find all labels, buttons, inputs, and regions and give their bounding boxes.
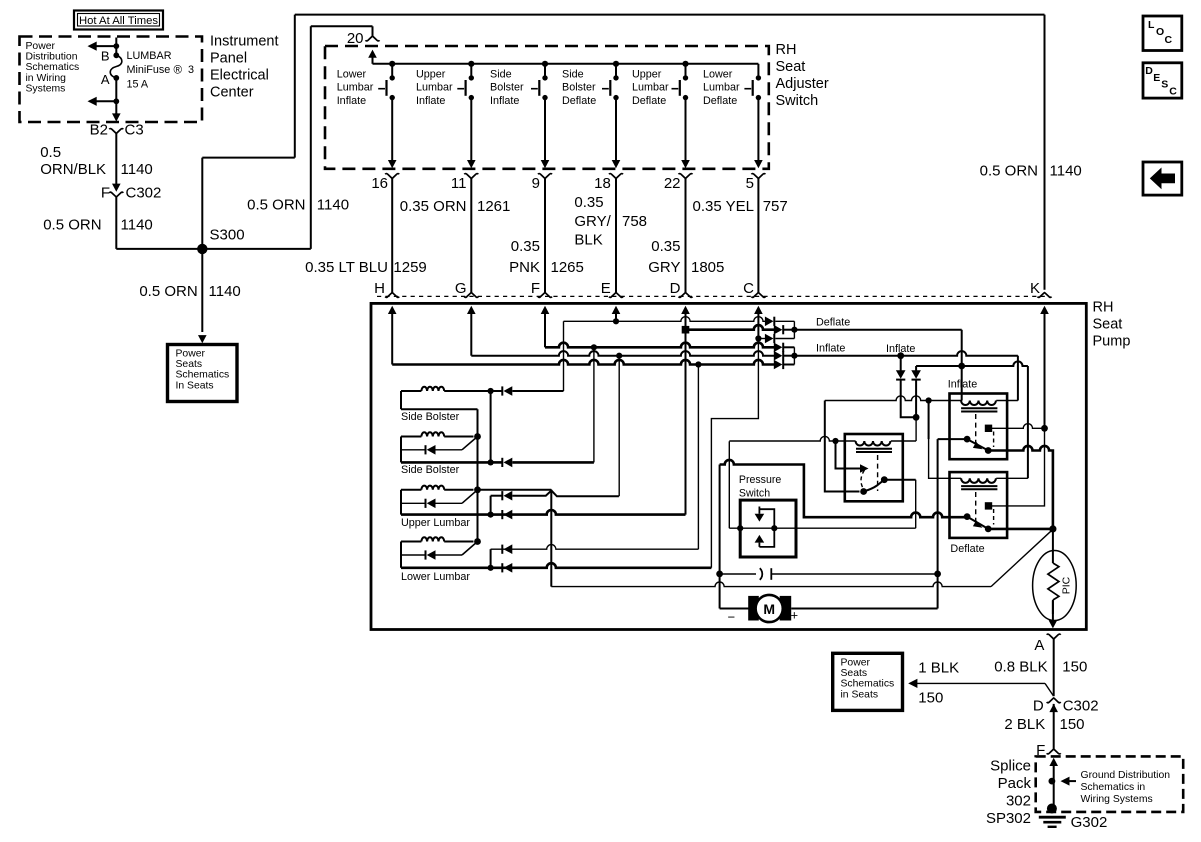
svg-text:Power: Power: [841, 658, 871, 669]
svg-text:F: F: [101, 185, 110, 202]
wire S300 right-branch to switch: [202, 248, 310, 250]
svg-text:Side: Side: [490, 69, 512, 81]
svg-text:0.5 ORN: 0.5 ORN: [139, 283, 197, 300]
wire pin G riser: [470, 313, 472, 356]
svg-text:Upper Lumbar: Upper Lumbar: [401, 517, 470, 529]
connector pin 18: [609, 174, 623, 179]
relay Inflate contact upper: [985, 425, 992, 432]
svg-text:Bolster: Bolster: [490, 82, 524, 94]
svg-text:C: C: [1169, 86, 1177, 98]
node G branch: [616, 353, 622, 359]
svg-text:Lumbar: Lumbar: [632, 82, 669, 94]
svg-text:C3: C3: [125, 122, 144, 139]
svg-text:1140: 1140: [1050, 163, 1082, 180]
bracket Lower Lumbar: [490, 549, 492, 568]
connector pin A female: [1047, 634, 1061, 639]
svg-text:1140: 1140: [209, 283, 241, 300]
wire terminal 16: [391, 178, 393, 292]
svg-text:0.35: 0.35: [651, 238, 680, 255]
wire deflate output: [794, 329, 961, 331]
svg-text:D: D: [670, 280, 681, 297]
relay Deflate core: [961, 485, 997, 487]
button LOC: [1143, 16, 1182, 51]
wire row F: [545, 343, 774, 348]
wire relay center contact out: [884, 479, 915, 481]
svg-text:MiniFuse: MiniFuse: [127, 64, 171, 76]
svg-text:GRY/: GRY/: [574, 213, 611, 230]
svg-text:1140: 1140: [121, 161, 153, 178]
wire pressure switch common: [729, 527, 915, 529]
svg-text:Upper: Upper: [416, 69, 446, 81]
svg-text:Splice: Splice: [990, 758, 1031, 775]
svg-text:Pump: Pump: [1093, 334, 1131, 350]
svg-text:Inflate: Inflate: [490, 95, 519, 107]
connector pin 22: [679, 174, 693, 179]
connector pin 16: [385, 174, 399, 179]
switch Side Bolster Inflate: [542, 61, 548, 67]
connector C302 pin D: [1047, 698, 1061, 703]
svg-text:0.35: 0.35: [511, 238, 540, 255]
wire SB1 left loop: [400, 391, 402, 409]
relay Deflate arm: [967, 517, 988, 529]
wire deflate NO contact to PIC node: [988, 528, 1053, 531]
svg-text:RH: RH: [776, 42, 797, 58]
diode Lower Lumbar: [401, 554, 426, 556]
node deflate link: [958, 363, 965, 370]
wire branch to power seats: [917, 682, 1045, 684]
wire center drop to motor rail: [550, 490, 552, 587]
svg-text:0.5: 0.5: [40, 144, 61, 161]
svg-text:Systems: Systems: [26, 83, 66, 94]
arrow into pump pin H: [388, 306, 397, 314]
wire terminal 9: [544, 178, 546, 292]
svg-text:Schematics: Schematics: [26, 62, 80, 73]
wire relay coil feed: [729, 436, 855, 441]
svg-text:1261: 1261: [477, 198, 510, 215]
svg-text:Seats: Seats: [841, 668, 868, 679]
relay center right contact: [881, 476, 888, 483]
connector terminal 20 female: [366, 36, 380, 41]
connector pin D: [679, 293, 693, 298]
wire pin D riser: [685, 313, 687, 514]
node H branch: [695, 361, 701, 367]
node motor right: [934, 571, 941, 578]
svg-text:16: 16: [371, 175, 388, 192]
switch Lower Lumbar Inflate: [389, 61, 395, 67]
arrow into pump pin G: [467, 306, 476, 314]
solenoid Side Bolster coil: [401, 436, 421, 438]
label box Power Seats Schematics in Seats: [833, 653, 903, 710]
svg-text:Seats: Seats: [176, 359, 203, 370]
arrow into SP302: [1049, 758, 1058, 766]
solenoid Upper Lumbar coil: [401, 489, 421, 491]
wire switch feed bus: [373, 63, 759, 65]
svg-text:Seat: Seat: [1093, 317, 1123, 333]
wire terminal 5: [757, 178, 759, 292]
wire rail D Upper Lumbar: [401, 510, 686, 515]
svg-text:150: 150: [1062, 659, 1087, 676]
wire 2 BLK 150: [1053, 704, 1055, 749]
diode inflate tap: [900, 356, 902, 371]
wire pin F riser: [544, 313, 546, 347]
wire Lower Lumbar left side: [400, 542, 402, 568]
wire to relay center pole: [836, 441, 862, 469]
svg-text:B2: B2: [90, 122, 108, 139]
node coil tap: [832, 438, 838, 444]
wire rail F Side Bolster: [401, 461, 491, 464]
svg-text:11: 11: [451, 175, 467, 192]
wire F branch drop: [593, 347, 595, 462]
wire to connector C3: [115, 101, 117, 114]
relay Inflate coil: [961, 401, 996, 406]
wire heavy motor node to deflate pole: [720, 460, 968, 517]
node F branch: [591, 344, 597, 350]
arrow to power distribution A side: [90, 100, 117, 102]
svg-text:C302: C302: [126, 185, 162, 202]
svg-text:Hot At All Times: Hot At All Times: [79, 15, 158, 27]
svg-text:SP302: SP302: [986, 810, 1031, 827]
wire C branch drop: [711, 339, 758, 568]
wire pair-top Upper Lumbar: [512, 491, 619, 497]
svg-text:−: −: [728, 610, 736, 625]
node SP302 tap: [1049, 778, 1056, 785]
arrow into pump pin K: [1040, 306, 1049, 314]
relay center arm: [864, 480, 885, 492]
diode SB1: [491, 390, 503, 392]
diode Side Bolster: [401, 449, 426, 451]
node K contact: [1041, 425, 1048, 432]
wire row C: [758, 338, 765, 340]
svg-text:Ground Distribution: Ground Distribution: [1081, 770, 1171, 781]
svg-text:G: G: [455, 280, 467, 297]
dashed box RH Seat Adjuster Switch: [325, 46, 769, 169]
node Side Bolster bus: [474, 433, 481, 440]
switch Lower Lumbar Deflate: [757, 64, 759, 78]
svg-text:1265: 1265: [551, 259, 584, 276]
thermistor PIC: [1033, 551, 1077, 621]
svg-text:S: S: [1161, 79, 1168, 91]
svg-text:0.5 ORN: 0.5 ORN: [247, 197, 305, 214]
wire motor left riser: [719, 465, 721, 609]
svg-text:GRY: GRY: [648, 259, 680, 276]
wire 0.8 BLK 150: [1053, 639, 1055, 696]
connector pin K: [1038, 293, 1052, 298]
svg-text:Deflate: Deflate: [562, 95, 596, 107]
motor M: [720, 608, 749, 610]
svg-text:C302: C302: [1063, 698, 1099, 715]
svg-text:Wiring Systems: Wiring Systems: [1081, 794, 1153, 805]
solenoid Side Bolster 1 coil: [401, 390, 421, 392]
wire pair-top Lower Lumbar: [491, 545, 699, 550]
svg-text:0.35: 0.35: [574, 194, 603, 211]
wire deflate cross link: [916, 361, 1028, 366]
arrow into pump pin E: [612, 306, 621, 314]
svg-text:H: H: [374, 280, 385, 297]
svg-text:+: +: [791, 608, 799, 623]
node inflate tap: [897, 352, 904, 359]
node SB1: [488, 388, 494, 394]
box relay Deflate: [950, 472, 1008, 538]
svg-text:0.35 LT BLU: 0.35 LT BLU: [305, 259, 388, 276]
wire 0.5 ORN 1140 to S300: [115, 197, 117, 249]
wire inflate coil row: [825, 396, 961, 401]
svg-text:E: E: [601, 280, 611, 297]
wire H branch drop: [697, 365, 699, 550]
svg-text:302: 302: [1006, 793, 1031, 810]
wire terminal 22: [685, 178, 687, 292]
wire top rail 0.5 ORN to RH seat pump K: [295, 14, 1045, 16]
svg-text:LUMBAR: LUMBAR: [127, 50, 172, 62]
dashed box splice pack SP302: [1036, 756, 1184, 812]
svg-text:Seat: Seat: [776, 59, 806, 75]
node C junction: [755, 335, 761, 341]
node B: [113, 43, 119, 49]
svg-text:Upper: Upper: [632, 69, 662, 81]
svg-text:Deflate: Deflate: [632, 95, 666, 107]
svg-text:®: ®: [174, 65, 183, 77]
wire S300 down-branch 0.5 ORN 1140: [201, 249, 203, 332]
wire inflate NC contact to K: [989, 424, 1045, 429]
svg-text:C: C: [743, 280, 754, 297]
label box Hot At All Times: [74, 11, 163, 30]
svg-text:A: A: [101, 72, 110, 87]
svg-text:150: 150: [1060, 716, 1085, 733]
fuse F3 LUMBAR MiniFuse 15A element: [110, 55, 122, 78]
connector C302 pin F: [112, 184, 121, 192]
svg-text:9: 9: [532, 175, 540, 192]
svg-text:Side Bolster: Side Bolster: [401, 411, 460, 423]
connector SP302 pin F: [1047, 749, 1061, 754]
diode Upper Lumbar: [401, 502, 426, 504]
svg-text:Inflate: Inflate: [816, 343, 845, 355]
svg-text:B: B: [101, 49, 110, 64]
box RH Seat Pump: [371, 303, 1086, 629]
svg-text:G302: G302: [1071, 814, 1108, 831]
arrow to power distribution B side: [90, 45, 117, 47]
wire pin H riser: [391, 313, 393, 364]
svg-text:Lumbar: Lumbar: [416, 82, 453, 94]
svg-text:F: F: [531, 280, 540, 297]
wire pole corner: [938, 438, 968, 440]
svg-text:20: 20: [347, 30, 364, 47]
wire deflate coil riser: [1027, 366, 1029, 478]
svg-text:O: O: [1156, 26, 1164, 38]
diode bracket deflate group: [793, 321, 795, 338]
relay Deflate contact upper: [985, 502, 992, 509]
svg-text:Deflate: Deflate: [703, 95, 737, 107]
connector pin G: [464, 293, 478, 298]
switch arm Upper Lumbar: [462, 490, 478, 504]
wire diagonal to relay node: [991, 529, 1053, 586]
wire Upper Lumbar coil row to drop: [478, 489, 552, 491]
button DESC: [1143, 63, 1182, 98]
svg-text:Inflate: Inflate: [337, 95, 366, 107]
svg-text:Switch: Switch: [739, 488, 770, 500]
diode deflate tap: [915, 366, 917, 371]
arrow into pump pin F: [541, 306, 550, 314]
bracket Upper Lumbar: [490, 496, 492, 515]
connector B2/C3 female: [109, 129, 123, 134]
svg-text:Lower: Lower: [703, 69, 733, 81]
svg-text:A: A: [1034, 637, 1044, 654]
pressure switch contact lower: [755, 535, 765, 543]
wire row D: [686, 325, 775, 330]
svg-text:Power: Power: [26, 41, 56, 52]
button back arrow: [1143, 162, 1182, 195]
arrow to power seats in seats: [908, 679, 917, 688]
svg-text:Center: Center: [210, 85, 254, 101]
svg-text:1 BLK: 1 BLK: [918, 660, 959, 677]
svg-text:3: 3: [188, 64, 194, 76]
wire motor right: [791, 608, 937, 610]
node inflate coil feed: [926, 397, 932, 403]
splice S300: [197, 244, 207, 254]
arrow to power seats schematics: [198, 335, 207, 343]
wire 0.5 ORN/BLK 1140: [115, 133, 117, 185]
svg-text:Deflate: Deflate: [816, 317, 850, 329]
relay Inflate core: [961, 407, 997, 409]
svg-text:1140: 1140: [121, 217, 153, 234]
ground G302: [1047, 804, 1057, 814]
bracket SB1 to rail: [490, 391, 492, 462]
svg-text:Bolster: Bolster: [562, 82, 596, 94]
relay center armature dashed: [861, 470, 865, 489]
wire deflate coil feed: [929, 401, 962, 479]
svg-text:Lower: Lower: [337, 69, 367, 81]
wire pressure switch feed: [728, 441, 730, 528]
svg-text:in Wiring: in Wiring: [26, 73, 67, 84]
svg-text:1259: 1259: [393, 259, 426, 276]
relay center pole: [860, 464, 869, 473]
wire fuse feed: [115, 38, 117, 56]
connector pin 9: [538, 174, 552, 179]
svg-text:150: 150: [918, 690, 943, 707]
svg-text:0.5 ORN: 0.5 ORN: [980, 163, 1038, 180]
dashed box Instrument Panel Electrical Center: [20, 37, 203, 123]
svg-text:Instrument: Instrument: [210, 34, 279, 50]
svg-text:Adjuster: Adjuster: [776, 76, 829, 92]
svg-text:Panel: Panel: [210, 51, 247, 67]
wire deflate riser: [961, 330, 963, 401]
wire pressure to relay contact riser: [915, 480, 917, 529]
wire row E: [564, 317, 766, 322]
wire inflate NO contact out: [988, 446, 1053, 529]
svg-text:Pack: Pack: [998, 775, 1032, 792]
connector pin 11: [464, 174, 478, 179]
relay Inflate arm: [967, 439, 988, 450]
arrow into pump pin D: [681, 306, 690, 314]
svg-text:S300: S300: [210, 227, 245, 244]
svg-text:Pressure: Pressure: [739, 474, 781, 486]
connector pin C: [751, 293, 765, 298]
node diode join: [913, 414, 920, 421]
box relay center: [845, 434, 903, 501]
node A: [113, 75, 119, 81]
wire pin C riser: [757, 313, 759, 338]
svg-text:in Seats: in Seats: [841, 689, 879, 700]
svg-text:ORN/BLK: ORN/BLK: [40, 161, 106, 178]
relay Deflate pole: [964, 513, 971, 520]
wire terminal 11: [470, 178, 472, 292]
node motor left: [716, 571, 723, 578]
arrow pump output A: [1052, 601, 1054, 626]
connector pin 5: [751, 174, 765, 179]
svg-text:K: K: [1030, 280, 1040, 297]
svg-text:PIC: PIC: [1061, 576, 1073, 594]
wire pin E stub: [615, 313, 617, 321]
switch Upper Lumbar Inflate: [468, 61, 474, 67]
connector pin E: [609, 293, 623, 298]
svg-text:Inflate: Inflate: [416, 95, 445, 107]
relay center lower contact: [860, 488, 867, 495]
svg-text:0.35 ORN: 0.35 ORN: [400, 198, 467, 215]
arrow to ground distribution: [1061, 777, 1070, 786]
wire terminal 18: [615, 178, 617, 292]
svg-text:Inflate: Inflate: [948, 379, 977, 391]
connector pin H: [385, 293, 399, 298]
relay center core: [856, 448, 892, 450]
svg-text:0.5 ORN: 0.5 ORN: [43, 217, 101, 234]
wire deflate NC contact to K riser: [989, 428, 1045, 506]
node Upper Lumbar bus: [474, 486, 481, 493]
svg-text:758: 758: [622, 213, 647, 230]
wire fuse output: [115, 78, 117, 101]
svg-text:E: E: [1153, 72, 1160, 84]
wire E branch drop: [563, 321, 565, 391]
switch Side Bolster Deflate: [613, 61, 619, 67]
wire Upper Lumbar left side: [400, 490, 402, 515]
arrow into pump pin C: [754, 306, 763, 314]
svg-text:2 BLK: 2 BLK: [1004, 716, 1045, 733]
relay Deflate coil: [961, 478, 996, 483]
svg-text:Lower Lumbar: Lower Lumbar: [401, 571, 470, 583]
box pressure switch: [740, 500, 796, 557]
wire Side Bolster left side: [400, 437, 402, 463]
svg-text:5: 5: [746, 175, 754, 192]
node PIC: [1049, 525, 1056, 532]
svg-text:Power: Power: [176, 349, 206, 360]
svg-text:0.8 BLK: 0.8 BLK: [994, 659, 1047, 676]
relay Inflate pole: [964, 436, 971, 443]
label box Power Seats Schematics in Seats: [168, 345, 238, 402]
wire riser to top rail: [294, 15, 296, 158]
wire motor feed row: [551, 582, 991, 587]
svg-text:PNK: PNK: [509, 259, 540, 276]
connector C3 pin B2 male arrow: [115, 113, 117, 120]
svg-text:Side Bolster: Side Bolster: [401, 464, 460, 476]
wire coil return riser: [915, 417, 917, 441]
switch arm Lower Lumbar: [462, 542, 478, 556]
svg-text:757: 757: [763, 198, 788, 215]
svg-text:C: C: [1165, 34, 1173, 46]
svg-text:Schematics: Schematics: [841, 679, 895, 690]
svg-text:1805: 1805: [691, 259, 724, 276]
svg-text:In Seats: In Seats: [176, 380, 214, 391]
svg-text:Schematics: Schematics: [176, 370, 230, 381]
svg-text:22: 22: [664, 175, 681, 192]
svg-text:M: M: [763, 601, 775, 617]
solenoid Lower Lumbar coil: [401, 541, 421, 543]
svg-text:Lumbar: Lumbar: [703, 82, 740, 94]
switch arm Side Bolster: [462, 437, 478, 450]
wire inflate output: [794, 351, 1018, 356]
wire relay center lower contact feed: [825, 401, 860, 492]
svg-text:L: L: [1148, 19, 1155, 31]
svg-text:D: D: [1145, 65, 1153, 77]
wire inflate riser: [1017, 356, 1019, 401]
wire rail C Lower Lumbar: [401, 563, 711, 568]
svg-text:RH: RH: [1093, 300, 1114, 316]
